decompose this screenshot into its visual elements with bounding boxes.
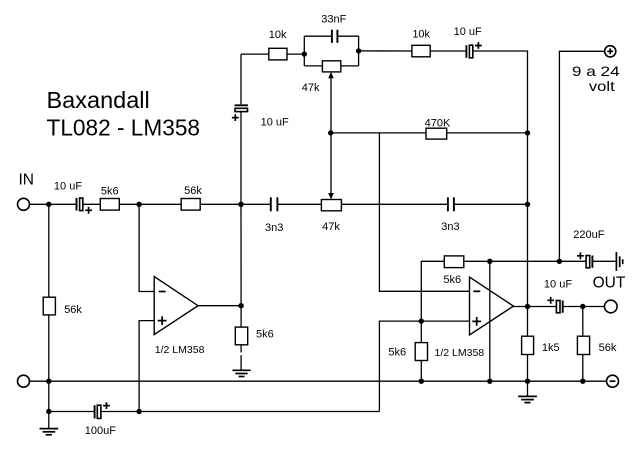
ground (below R7) — [232, 370, 250, 376]
ground (bottom left) — [40, 429, 59, 435]
wire: node J up to bias resistor R8 — [421, 261, 444, 321]
node T (bias rail left corner) — [46, 409, 51, 414]
node F (input shunt junction) — [46, 202, 51, 207]
wire: corner from node A up-left to 10k R3 — [240, 112, 242, 205]
svg-text:10 uF: 10 uF — [544, 279, 572, 291]
wire: right branch vertical of treble loop — [358, 36, 360, 66]
wire: node G down to U1 inverting input — [139, 204, 154, 291]
svg-text:volt: volt — [589, 78, 615, 94]
wiper arm of P1 / P2 (vertical with arrows both ends) — [328, 72, 334, 199]
terminal input common — [18, 375, 30, 387]
svg-text:56k: 56k — [184, 185, 202, 197]
wire: node A down to node I — [240, 204, 242, 305]
svg-text:10k: 10k — [412, 29, 430, 41]
capacitor C6 3n3 — [441, 197, 459, 233]
wire: left branch vertical of treble loop — [303, 36, 305, 66]
node I (U1 output) — [238, 303, 243, 308]
resistor R3 10k — [269, 29, 287, 60]
node G (U1 inverting summing node) — [136, 202, 141, 207]
wire: R8 to supply rail node K — [464, 260, 560, 262]
wire: tap from 470K line down to op-amp U2 inverting input — [379, 133, 469, 291]
wire: C9 to bias rail right corner — [101, 411, 380, 413]
node B (left of treble network) — [302, 51, 307, 56]
node Q — [487, 379, 492, 384]
node R — [525, 379, 530, 384]
svg-text:IN: IN — [19, 172, 35, 189]
svg-text:100uF: 100uF — [85, 425, 116, 437]
potentiometer P1 47k body — [302, 61, 341, 94]
node P — [419, 379, 424, 384]
resistor R8 5k6 (bias upper) — [443, 256, 463, 286]
node L (V+ pin tap) — [487, 259, 492, 264]
svg-text:10 uF: 10 uF — [261, 117, 289, 129]
capacitor C3 33nF — [321, 14, 346, 43]
wire: C8 to OUT terminal — [563, 306, 605, 308]
ground (sideways, after C7) — [616, 252, 622, 271]
wire: node O down to bias rail / ground stem — [48, 381, 50, 428]
node M (U2 output) — [525, 304, 530, 309]
wire: V+ terminal to supply rail — [559, 51, 604, 261]
node D (wiper junction with 470K) — [328, 130, 333, 135]
resistor R5 470K — [425, 117, 451, 139]
resistor R2 56k (feedback of U1) — [181, 185, 202, 210]
wire: node C to resistor 10k R4 — [359, 50, 412, 52]
terminal IN — [18, 172, 35, 211]
svg-text:5k6: 5k6 — [388, 347, 406, 359]
node K (supply junction) — [557, 259, 562, 264]
svg-text:56k: 56k — [599, 342, 617, 354]
resistor R7 5k6 (U1 load to ground) — [235, 306, 273, 370]
svg-text:5k6: 5k6 — [256, 329, 274, 341]
wire: C5 to potentiometer P2 — [277, 203, 321, 205]
wire: potentiometer P1 to right branch — [341, 65, 359, 67]
node J (U2 + input bias divider) — [419, 318, 424, 323]
svg-text:OUT: OUT — [593, 274, 626, 291]
wire: node D to resistor R5 470K — [331, 132, 426, 134]
wire: top branch to capacitor C3 — [304, 35, 332, 37]
node O — [46, 379, 51, 384]
node S — [580, 379, 585, 384]
wire: 10k R4 to capacitor C4 — [430, 50, 466, 52]
svg-text:1/2 LM358: 1/2 LM358 — [435, 347, 485, 359]
wire: C1 to resistor R1 5k6 — [83, 203, 101, 205]
svg-text:10 uF: 10 uF — [54, 180, 82, 192]
wire: C6 to node H on feedback rail — [454, 203, 528, 205]
terminal V+ (9 a 24 volt) — [572, 46, 620, 94]
resistor R11 56k (output shunt) — [577, 307, 616, 382]
svg-text:1k5: 1k5 — [542, 342, 560, 354]
wire: R1 to node G — [119, 203, 181, 205]
capacitor C4 10 uF (electrolytic) — [454, 26, 482, 58]
ground (below node R) — [518, 381, 537, 402]
node E — [525, 130, 530, 135]
terminal output common (minus) — [607, 375, 619, 387]
svg-text:1/2 LM358: 1/2 LM358 — [155, 344, 205, 356]
svg-text:470K: 470K — [425, 117, 451, 129]
wire: 470K to node E on feedback rail — [447, 132, 528, 134]
wire: ground rail — [30, 380, 607, 382]
svg-text:9 a 24: 9 a 24 — [572, 63, 620, 79]
wire: capacitor C3 to right branch — [337, 35, 358, 37]
op-amp U1 1/2 LM358 — [154, 277, 204, 356]
wire: U1 output to node I — [198, 305, 241, 307]
capacitor C2 10 uF (vertical electrolytic) — [232, 54, 289, 128]
wire: U1 non-inverting input to bias rail — [139, 321, 154, 412]
wire: bottom branch left to potentiometer P1 — [304, 65, 322, 67]
node A (U1 output net on signal line) — [238, 202, 243, 207]
svg-text:220uF: 220uF — [573, 229, 604, 241]
terminal OUT — [593, 274, 626, 313]
svg-text:TL082 - LM358: TL082 - LM358 — [47, 115, 201, 141]
wire: bias rail left segment to capacitor C9 — [49, 411, 95, 413]
svg-text:56k: 56k — [64, 304, 82, 316]
wire: P2 to capacitor C6 — [341, 203, 448, 205]
wire: U2 non-inverting input line to bias rail corner — [379, 321, 469, 411]
capacitor C5 3n3 — [265, 197, 283, 234]
node N (output divider junction) — [580, 304, 585, 309]
svg-text:5k6: 5k6 — [101, 185, 119, 197]
node H — [525, 202, 530, 207]
wire: 10k R3 to node B — [287, 53, 304, 55]
wire: U2 output to node M — [513, 306, 527, 308]
svg-text:5k6: 5k6 — [443, 274, 461, 286]
resistor R4 10k — [412, 29, 431, 57]
svg-text:Baxandall: Baxandall — [47, 87, 150, 113]
svg-text:3n3: 3n3 — [441, 221, 459, 233]
svg-text:33nF: 33nF — [321, 14, 346, 26]
wire: U2 power pins vertical through triangle — [489, 261, 491, 381]
resistor R6 56k (input shunt to ground) — [43, 204, 82, 381]
wire: R2 to node A — [200, 203, 271, 205]
potentiometer P2 47k body — [321, 200, 341, 233]
node U (U1 + bias tap) — [136, 409, 141, 414]
wire: to resistor 10k R3 — [241, 53, 269, 55]
capacitor C8 10 uF (output electrolytic) — [544, 279, 572, 313]
svg-text:47k: 47k — [322, 221, 340, 233]
svg-text:10k: 10k — [269, 29, 287, 41]
svg-text:10 uF: 10 uF — [454, 26, 482, 38]
svg-text:47k: 47k — [302, 82, 320, 94]
wire: node M to capacitor C8 — [528, 306, 557, 308]
op-amp U2 1/2 LM358 — [435, 277, 514, 359]
svg-text:3n3: 3n3 — [265, 222, 283, 234]
resistor R10 1k5 (U2 load) — [522, 307, 560, 382]
resistor R9 5k6 (U2 bias lower) — [388, 321, 427, 381]
wire: capacitor C4 to feedback rail corner — [473, 51, 527, 307]
capacitor C1 10 uF (input electrolytic) — [54, 180, 92, 213]
capacitor C7 220uF (supply decoupling) — [559, 229, 616, 268]
capacitor C9 100uF (bias decoupling electrolytic) — [85, 402, 116, 437]
resistor R1 5k6 — [100, 185, 119, 210]
node C (right of treble network) — [356, 48, 361, 53]
wire: IN to capacitor C1 — [30, 203, 77, 205]
